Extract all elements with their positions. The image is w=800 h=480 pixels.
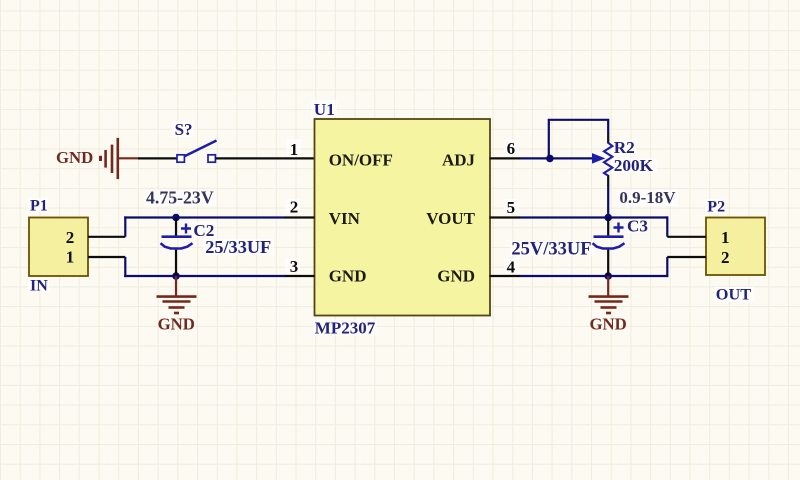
svg-text:5: 5 bbox=[507, 198, 515, 217]
svg-text:VIN: VIN bbox=[329, 209, 361, 228]
svg-text:6: 6 bbox=[507, 139, 515, 158]
svg-text:GND: GND bbox=[590, 315, 627, 334]
svg-text:GND: GND bbox=[56, 148, 93, 167]
svg-text:ON/OFF: ON/OFF bbox=[329, 151, 393, 170]
svg-text:P2: P2 bbox=[707, 199, 725, 216]
svg-text:4.75-23V: 4.75-23V bbox=[146, 187, 214, 207]
svg-text:GND: GND bbox=[329, 267, 367, 286]
svg-text:ADJ: ADJ bbox=[442, 151, 476, 170]
svg-text:S?: S? bbox=[175, 120, 193, 139]
svg-text:25V/33UF: 25V/33UF bbox=[511, 239, 591, 259]
svg-text:1: 1 bbox=[66, 248, 75, 267]
svg-text:P1: P1 bbox=[30, 197, 48, 214]
svg-text:4: 4 bbox=[507, 258, 516, 277]
svg-text:GND: GND bbox=[437, 267, 475, 286]
svg-text:25/33UF: 25/33UF bbox=[205, 237, 271, 257]
svg-text:R2: R2 bbox=[614, 138, 635, 157]
svg-text:2: 2 bbox=[66, 228, 75, 247]
svg-text:1: 1 bbox=[290, 140, 299, 159]
svg-text:OUT: OUT bbox=[716, 285, 751, 304]
svg-text:VOUT: VOUT bbox=[426, 209, 475, 228]
svg-text:2: 2 bbox=[721, 248, 730, 267]
svg-text:U1: U1 bbox=[314, 100, 335, 119]
svg-text:3: 3 bbox=[290, 257, 299, 276]
svg-text:1: 1 bbox=[721, 228, 730, 247]
svg-text:200K: 200K bbox=[614, 156, 654, 175]
svg-text:C3: C3 bbox=[627, 217, 648, 236]
svg-text:GND: GND bbox=[158, 315, 195, 334]
svg-text:2: 2 bbox=[290, 197, 299, 216]
svg-text:MP2307: MP2307 bbox=[315, 319, 376, 338]
svg-text:0.9-18V: 0.9-18V bbox=[619, 188, 676, 207]
svg-text:IN: IN bbox=[30, 277, 48, 294]
